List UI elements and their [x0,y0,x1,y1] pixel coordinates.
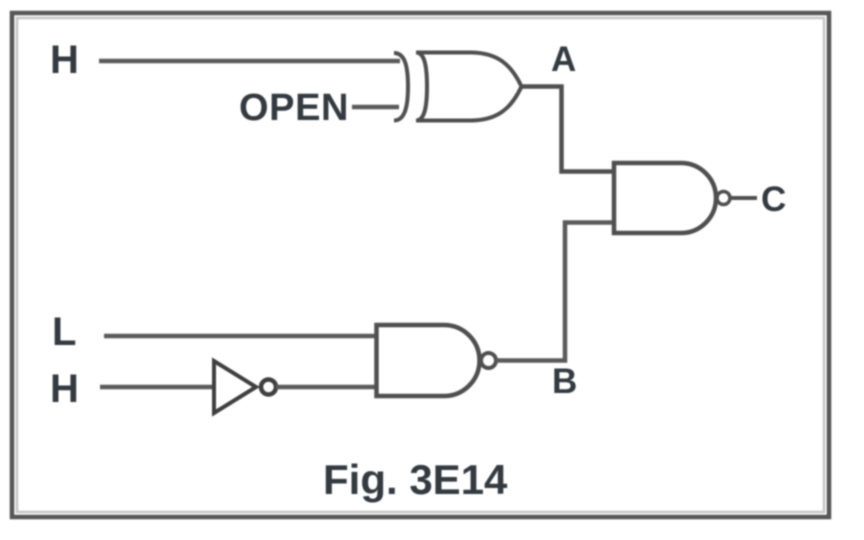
wire bubble to C [730,196,757,200]
wire H to inverter [100,385,214,390]
inverter U3 triangle [214,361,256,413]
svg-text:Fig. 3E14: Fig. 3E14 [323,456,508,503]
wire L to NAND [104,334,378,339]
xor gate U1 input arc [394,53,408,121]
svg-text:B: B [552,362,577,401]
svg-text:A: A [551,40,576,79]
svg-text:C: C [761,180,786,219]
wire B: bubble to corner up to NAND U2 [496,223,612,361]
nand gate U4 (bottom) [377,325,480,396]
svg-text:H: H [50,38,79,82]
svg-text:L: L [52,310,76,354]
inverter U3 bubble [261,380,276,395]
wire OPEN to XOR [352,105,399,110]
nand U4 output bubble [481,353,496,368]
svg-text:OPEN: OPEN [239,87,349,129]
wire H to XOR [99,59,400,64]
wire XOR output to corner [522,87,613,172]
xor gate U1 body [416,53,522,121]
nand U2 output bubble [717,192,730,205]
svg-text:H: H [50,367,79,411]
wire inverter to NAND [276,385,378,390]
nand gate U2 (right) [614,163,716,233]
